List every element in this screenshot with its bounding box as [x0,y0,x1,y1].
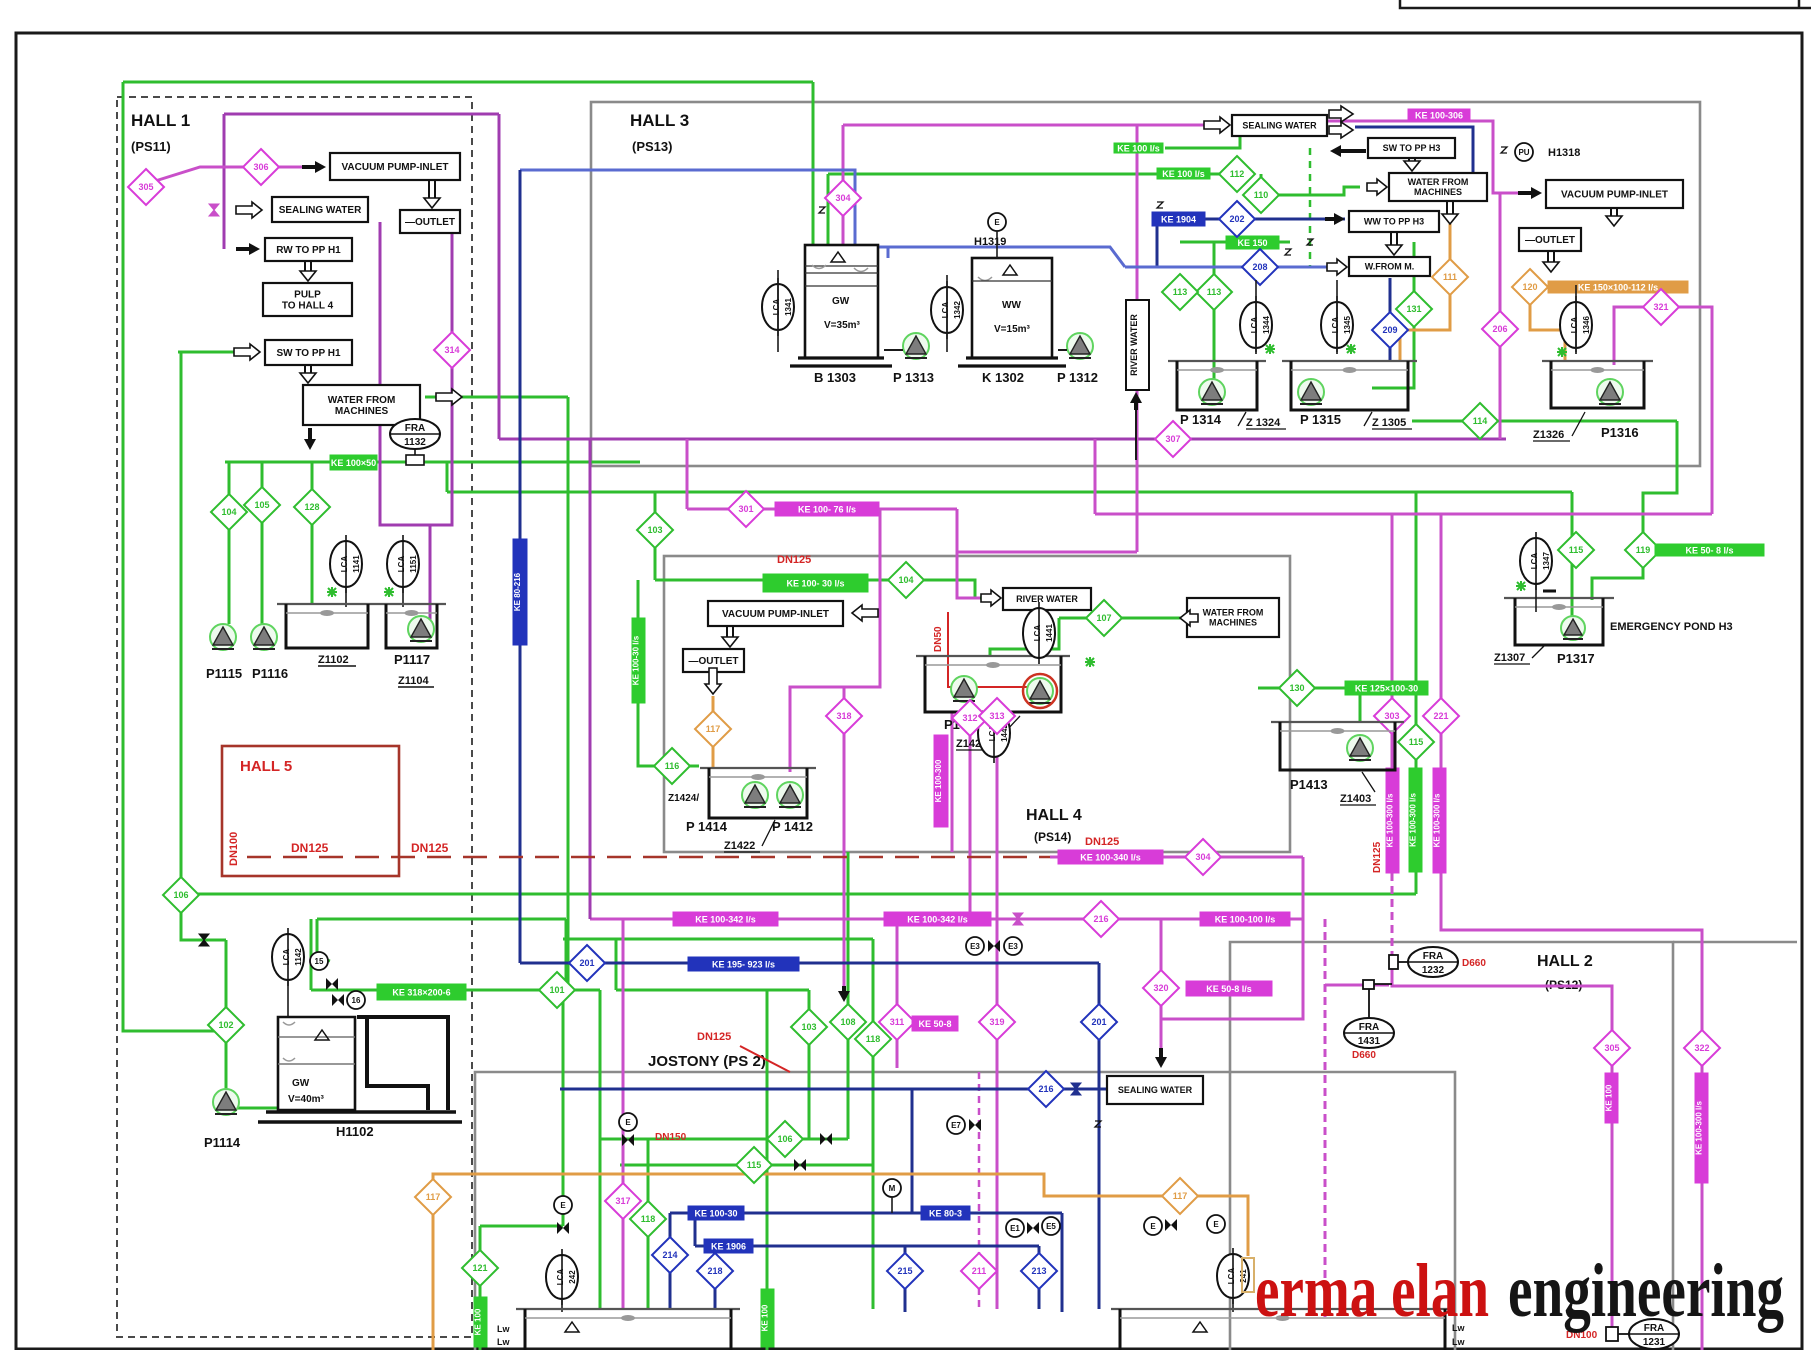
svg-text:V=40m³: V=40m³ [288,1094,325,1105]
instrument E3b [1004,937,1022,955]
svg-text:307: 307 [1165,434,1180,444]
valve magenta 919 [1013,913,1023,925]
wire navy tank drop 715 [714,1246,717,1309]
svg-text:E5: E5 [1046,1222,1056,1231]
diamond 211 [961,1253,997,1289]
HALL 3 enclosure (PS13) [591,102,1700,466]
svg-text:RIVER WATER: RIVER WATER [1129,314,1139,376]
svg-text:LCA: LCA [282,949,291,966]
svg-text:E: E [994,218,1000,227]
wire navy sealing return [1355,127,1473,173]
FRA1231 tap [1606,1327,1629,1341]
diamond 113 [1196,274,1232,310]
arrow out sw to pp h3 [1330,145,1366,157]
svg-text:208: 208 [1252,262,1267,272]
svg-text:KE 80-216: KE 80-216 [513,572,522,611]
instrument FRA 1431 [1344,1018,1394,1048]
wire green hall4 vacuum drop 638 [638,580,699,766]
valve C15 [326,978,338,990]
pump P 1412 [777,782,803,808]
svg-text:113: 113 [1173,287,1188,297]
diamond 106 jostony [767,1121,803,1157]
svg-text:318: 318 [836,711,851,721]
wire green 894 bus [181,893,1416,896]
wire green left column [181,352,226,940]
arrow into vacuum pump-inlet [302,161,326,173]
svg-text:216: 216 [1093,914,1108,924]
svg-text:301: 301 [738,504,753,514]
double arrow vacuum to outlet [424,180,440,208]
diamond 128 [294,489,330,525]
instrument Ea [1144,1217,1162,1235]
svg-text:PULP: PULP [294,290,321,301]
underline Z1421 [956,716,1020,750]
wire magenta hall4 509 bus [687,508,957,511]
svg-text:VACUUM PUMP-INLET: VACUUM PUMP-INLET [341,162,448,173]
svg-text:117: 117 [706,724,721,734]
svg-text:LCA: LCA [772,299,781,316]
tank P1316 pit [1542,361,1653,408]
svg-text:GW: GW [832,296,850,307]
svg-text:LCA: LCA [1250,317,1259,334]
svg-text:1231: 1231 [1643,1337,1666,1348]
svg-text:P1116: P1116 [252,666,288,681]
svg-text:KE 100-306: KE 100-306 [1415,111,1463,121]
tank B 1303 [805,245,878,358]
diamond 319 [979,1004,1015,1040]
wire green left riser [123,82,226,1031]
valve on sealing feed [209,204,219,216]
wire dark red DN125 dashed [247,856,1050,859]
pond inlet tick [1543,590,1556,593]
svg-text:JOSTONY (PS 2): JOSTONY (PS 2) [648,1053,766,1070]
label KE 100-342 magenta b [884,912,991,926]
arrow into vacuum h3 [1518,187,1542,199]
svg-text:118: 118 [641,1214,656,1224]
diamond 301 [728,491,764,527]
tank H1102 right chute [357,1017,448,1110]
wire navy tank drop 1062 [1061,1213,1064,1312]
svg-text:WW TO PP H3: WW TO PP H3 [1364,217,1424,227]
svg-text:1345: 1345 [1343,316,1352,334]
svg-text:P1117: P1117 [394,652,430,667]
wire green 492 bus [447,491,1572,494]
diamond 304 mid [1185,839,1221,875]
svg-text:KE 50-8 l/s: KE 50-8 l/s [1206,984,1252,994]
svg-text:Lw: Lw [1452,1337,1465,1347]
svg-text:KE 50-8: KE 50-8 [918,1019,951,1029]
svg-text:218: 218 [707,1266,722,1276]
svg-text:LCA: LCA [1570,317,1579,334]
svg-text:KE 100-340 l/s: KE 100-340 l/s [1080,853,1141,863]
instrument LCA 1342 [931,281,963,339]
tank P1317 emergency pond [1504,598,1614,645]
svg-text:LCA: LCA [1331,317,1340,334]
svg-text:KE 100-300 l/s: KE 100-300 l/s [1695,1101,1704,1155]
svg-text:Z1424/: Z1424/ [668,793,699,804]
diamond 216 [1083,901,1119,937]
wire green jostony drop 648 [647,1139,650,1309]
diamond 307 [1155,421,1191,457]
svg-text:P 1414: P 1414 [686,819,728,834]
svg-text:128: 128 [304,502,319,512]
svg-text:E: E [1213,1220,1219,1229]
wire orange hall4 outlet drop [712,696,715,767]
wire magenta 919 bus [590,918,1303,921]
svg-text:1151: 1151 [409,555,418,573]
label box WATER FROM MACHINES h3 [1389,173,1487,201]
svg-text:SEALING WATER: SEALING WATER [279,205,362,216]
diamond 131 [1396,291,1432,327]
wire green P1413 line [1258,687,1345,690]
wire green jostony drop 600 [599,990,602,1309]
svg-text:111: 111 [1443,272,1457,282]
svg-text:108: 108 [840,1017,855,1027]
asterisk 1441 [1085,657,1095,667]
valve on 940 line [199,934,209,946]
svg-text:Lw: Lw [497,1337,510,1347]
underline Z1102 [318,665,356,667]
instrument E jostony 563 [554,1196,572,1214]
diamond 103 jostony [791,1009,827,1045]
svg-text:105: 105 [254,500,269,510]
wire green jostony 1165 bus [620,1164,873,1167]
wire magenta riser 1500 [1499,193,1502,439]
wire navy riser 912 [911,1089,914,1213]
diamond 105 [244,487,280,523]
valve E3 [988,940,1000,952]
wire magenta jostony drop 979 [978,1072,981,1309]
instrument FRA 1132 [390,419,440,449]
wire green dashed future [1309,148,1312,268]
svg-text:LCA: LCA [1227,1268,1236,1285]
wire navy 267 line [1125,266,1335,269]
wire magenta 857 bus [1050,856,1303,859]
svg-text:DN125: DN125 [1372,841,1383,873]
wire purple riser 499 [498,114,501,439]
label box OUTLET hall1 [400,210,460,233]
svg-text:V=15m³: V=15m³ [994,324,1031,335]
svg-text:110: 110 [1254,190,1269,200]
arrow into w from m [1327,259,1347,275]
asterisk 1347 [1516,581,1526,591]
diamond 320 [1143,970,1179,1006]
wire green 990 bus right [616,989,809,992]
wire magenta hall2 303 line lower [1392,953,1612,1328]
wire magenta hall3 sealing bus [843,124,1208,127]
tank2 level mark [1193,1322,1207,1332]
wire magenta vacuum3 branch [858,509,880,613]
svg-text:304: 304 [835,193,850,203]
wire green P1413 drop [1359,688,1362,722]
arrow out of wfm [436,389,462,405]
svg-text:DN125: DN125 [411,841,449,855]
svg-text:M: M [889,1184,896,1193]
wire green hall4 WFM elbow [990,618,1059,656]
label KE 100-100 magenta [1200,912,1290,926]
wire navy tank drop 670 [669,1213,672,1309]
svg-text:103: 103 [647,525,662,535]
svg-text:117: 117 [1173,1191,1188,1201]
JOSTONY enclosure (PS 2) [475,1072,1455,1350]
svg-text:104: 104 [898,575,913,585]
wire green P1314 feed [1213,242,1216,388]
orange corner box [1242,1258,1254,1292]
diamond 321 [1643,289,1679,325]
diamond 118b [630,1201,666,1237]
arrow sealing water jostony [1155,1048,1167,1068]
wire green hall3 242 line [1180,241,1290,244]
label KE 50-8 green pond [1655,544,1764,556]
wire black river water supply [1135,396,1137,460]
svg-text:Z1307: Z1307 [1494,652,1525,664]
svg-text:1141: 1141 [352,555,361,573]
svg-text:P 1313: P 1313 [893,370,934,385]
pump P 1313 [903,333,929,359]
label box PULP TO HALL 4 [263,283,352,316]
diamond 117 jostony a [415,1179,451,1215]
label KE 80-3 blue [921,1206,970,1220]
z mark navy 1098 [1095,1121,1101,1127]
svg-text:E1: E1 [1010,1224,1020,1233]
wire green 990 bus left [311,989,377,992]
svg-text:(PS11): (PS11) [131,139,171,154]
pump1313 suction [884,349,903,351]
label KE orange [1548,281,1688,293]
wire purple hall1 top bus [224,113,499,116]
svg-text:1344: 1344 [1262,316,1271,334]
svg-text:241: 241 [1239,1269,1248,1283]
instrument M stem [891,1197,893,1213]
svg-text:1346: 1346 [1582,316,1591,334]
double arrow rw to pulp [300,261,316,281]
svg-text:DN125: DN125 [1085,836,1119,848]
vertical label green 115 [1409,768,1423,872]
svg-text:LCA: LCA [340,556,349,573]
tank K1302 plinth [958,358,1066,366]
svg-text:115: 115 [1409,737,1424,747]
svg-text:213: 213 [1031,1266,1046,1276]
valve on green 563 [557,1222,569,1234]
svg-text:FRA: FRA [1359,1022,1380,1033]
wire red DN50 river water [948,612,1034,687]
svg-text:206: 206 [1492,324,1507,334]
valve navy 1089 [1071,1083,1081,1095]
wire magenta sealing water drop 380 [380,222,430,620]
diamond 104 [211,494,247,530]
diamond 116 [654,748,690,784]
wire green riser 563 lower [562,990,565,1226]
svg-text:D660: D660 [1352,1050,1376,1061]
underline Z1324 [1238,412,1286,429]
wire magenta hall4 drop 844 [843,687,846,998]
svg-text:FRA: FRA [405,423,426,434]
svg-text:106: 106 [173,890,188,900]
tank P1314 pit [1168,361,1266,410]
tank B1303 plinth [790,358,892,366]
valve E7 [969,1119,981,1131]
svg-text:P 1412: P 1412 [772,819,813,834]
wire green 919 bus left [317,918,566,921]
svg-text:305: 305 [138,182,153,192]
svg-text:H1102: H1102 [336,1124,374,1139]
svg-text:LCA: LCA [397,556,406,573]
wire green top bus [123,81,813,84]
svg-text:HALL 4: HALL 4 [1026,807,1082,824]
svg-text:WATER FROM: WATER FROM [328,395,396,406]
svg-text:1342: 1342 [953,301,962,319]
lca1141 stem [345,588,347,607]
svg-text:102: 102 [218,1020,233,1030]
wire green hall1 462 bus [225,461,640,464]
instrument LCA 1441 [1023,602,1055,664]
tank Z1102 [277,604,377,648]
svg-text:GW: GW [292,1078,310,1089]
svg-text:KE 125×100-30: KE 125×100-30 [1355,684,1418,694]
wire green drop 655 [654,492,657,580]
label KE 100-76 magenta [775,502,879,516]
svg-text:201: 201 [1091,1017,1106,1027]
svg-text:Lw: Lw [497,1324,510,1334]
svg-text:KE 100: KE 100 [761,1304,770,1331]
svg-text:KE 1904: KE 1904 [1161,215,1196,225]
wire green P1315 outlet 421 [1412,420,1677,423]
wire lightblue 170 line [520,170,1125,267]
diamond 214 [652,1237,688,1273]
instrument LCA 242 [546,1249,578,1305]
diamond 110 [1243,177,1279,213]
lca1142 stem [287,980,289,1017]
wire magenta 306 wire [152,167,310,182]
diamond 102 [208,1007,244,1043]
svg-text:HALL 1: HALL 1 [131,111,190,130]
lca1347 stem [1535,585,1537,612]
wire magenta tank B drop 843 [842,125,845,245]
svg-text:P1317: P1317 [1557,651,1595,666]
lca1346 stem [1575,285,1577,352]
diamond 117 jostony b [1162,1178,1198,1214]
pump1312 suction [1058,349,1067,351]
double arrow sw h3 down [1404,158,1420,171]
wire navy jostony 1213 bus [670,1212,1062,1215]
pump P 1414 [742,782,768,808]
diamond 303 right [1374,698,1410,734]
label box RIVER WATER h4 [1003,588,1091,610]
instrument LCA 1442 [978,703,1010,763]
svg-text:Z1326: Z1326 [1533,429,1564,441]
svg-text:DN125: DN125 [697,1031,731,1043]
diamond 209 [1372,312,1408,348]
tank jostony 2 (WW pit) [1111,1309,1454,1350]
svg-text:1232: 1232 [1422,965,1445,976]
svg-text:engineering: engineering [1508,1249,1784,1333]
wire green hall2 riser 1416 [1415,492,1418,894]
instrument Eb [1207,1215,1225,1233]
instrument E7 [947,1116,965,1134]
svg-text:P1115: P1115 [206,666,242,681]
wire green hall4 580 bus [655,580,990,598]
arrow into wfm h3 [1367,179,1387,195]
diamond 119 pond [1625,532,1661,568]
HALL 5 enclosure (dark red) [222,746,399,876]
wire green 131 branch [1372,242,1414,388]
diamond 121 [462,1250,498,1286]
instrument C15 [310,952,328,970]
diamond 115 jostony [736,1147,772,1183]
label KE magenta 311 [912,1016,958,1031]
wire green jostony 1139 bus [600,1138,848,1141]
svg-text:HALL 3: HALL 3 [630,111,689,130]
svg-text:K 1302: K 1302 [982,370,1024,385]
arrow into ww to pp h3 [1325,213,1345,225]
label box WATER FROM MACHINES h4 [1187,598,1279,637]
svg-text:KE 100-300 l/s: KE 100-300 l/s [1409,793,1418,847]
svg-text:TO HALL 4: TO HALL 4 [282,301,334,312]
label box SEALING WATER hall3 [1232,115,1327,136]
wire magenta drop 897 [896,919,899,1068]
wire green P1114 outlet [238,1107,278,1110]
wire lightblue K1302 stub [887,247,890,258]
wire green hall1 drop 262 [261,462,264,624]
vertical label RIVER WATER [1126,300,1149,390]
asterisk LCA1141 [327,587,337,597]
double arrows out of sealing water [1329,106,1353,138]
lca1345 stem [1336,280,1338,352]
pump P1413 [1347,735,1373,761]
instrument FRA 1231 [1629,1319,1679,1349]
top right title block edge [1400,0,1811,8]
instrument LCA 1151 [387,535,419,593]
pump P1116 [251,624,277,650]
vertical label magenta 303 [1386,768,1400,873]
vertical label green 116 [632,618,646,703]
diamond 305 hall2 [1594,1030,1630,1066]
asterisk 1346 [1557,347,1567,357]
diamond 113b [1162,274,1198,310]
label box RW TO PP H1 [265,238,352,261]
wire navy 219 line [1152,218,1345,221]
svg-text:1431: 1431 [1358,1036,1381,1047]
svg-text:Z1422: Z1422 [724,840,755,852]
hall2 top edge extension [1673,941,1797,944]
svg-text:DN125: DN125 [291,841,329,855]
svg-text:VACUUM PUMP-INLET: VACUUM PUMP-INLET [1561,190,1668,201]
wire magenta 1137 drop [1136,125,1139,552]
svg-text:erma elan: erma elan [1255,1249,1489,1333]
svg-text:115: 115 [747,1160,762,1170]
svg-text:—OUTLET: —OUTLET [689,656,739,667]
label box OUTLET h3 [1519,228,1581,251]
diamond 104 h4 [888,562,924,598]
diamond 313 [979,698,1015,734]
svg-text:DN125: DN125 [777,554,811,566]
vertical label blue 520 [513,539,527,645]
svg-text:107: 107 [1096,613,1111,623]
arrow into vacuum h4 [852,605,878,621]
double arrow outlet h3 down [1543,251,1559,272]
underline Z1422 [724,820,775,852]
svg-text:SEALING WATER: SEALING WATER [1118,1085,1193,1095]
valve Ea [1165,1219,1177,1231]
instrument FRA 1232 [1408,947,1458,977]
wire purple 439 bus [499,438,1506,441]
pump P 1314 [1199,379,1225,405]
arrow into rw to pp h1 [236,243,260,255]
instrument LCA 1344 [1240,296,1272,354]
wire magenta corner 1303 [1161,857,1303,1019]
pump P1317 [1561,616,1585,640]
svg-text:1132: 1132 [404,437,426,448]
